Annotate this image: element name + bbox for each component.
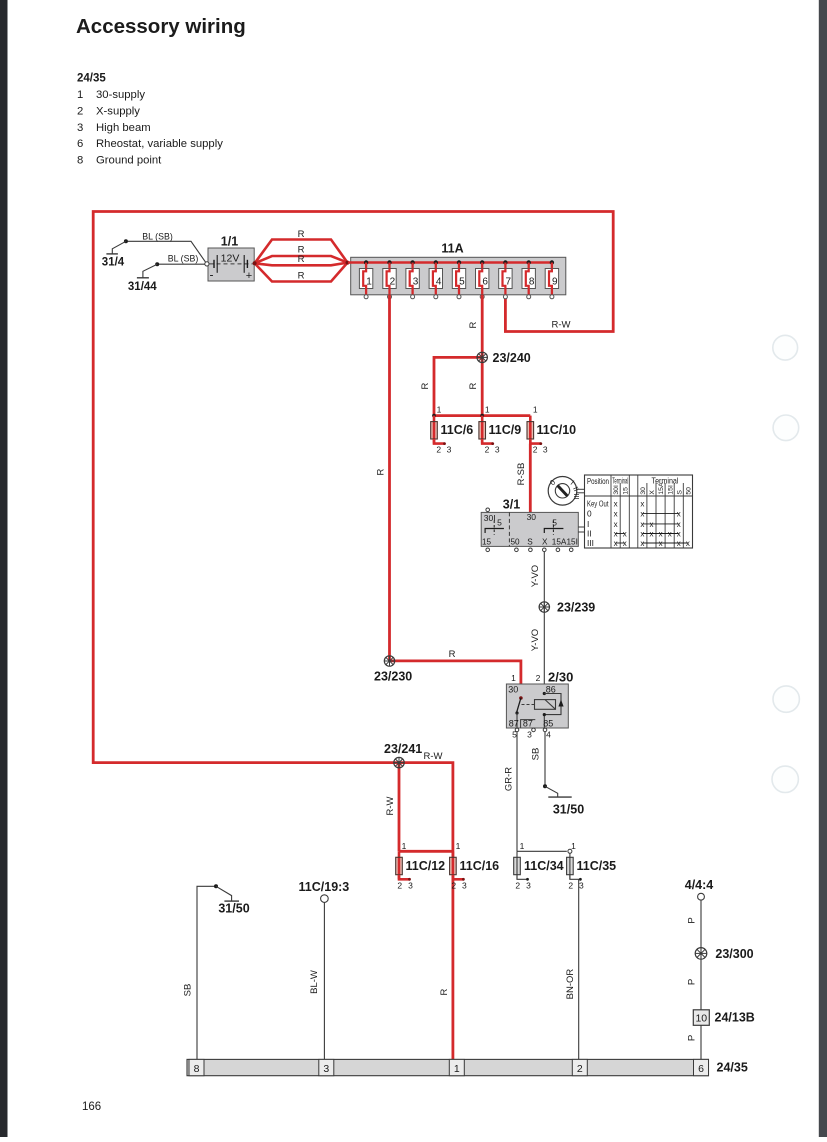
svg-text:7: 7 <box>506 276 512 287</box>
svg-text:24/35: 24/35 <box>717 1061 748 1075</box>
ignition key symbol <box>548 477 585 506</box>
connector 11C/34 <box>514 851 529 880</box>
svg-text:3: 3 <box>323 1063 329 1075</box>
svg-text:x: x <box>659 539 663 548</box>
right page edge strip <box>819 0 827 1137</box>
ground/feed rail 24/35 <box>187 1059 709 1075</box>
svg-text:24/35: 24/35 <box>77 73 106 85</box>
svg-text:6: 6 <box>482 276 488 287</box>
svg-text:Position: Position <box>587 476 609 486</box>
svg-text:9: 9 <box>552 276 558 287</box>
svg-text:30-supply: 30-supply <box>96 89 145 101</box>
svg-text:8: 8 <box>77 155 83 167</box>
rail terminal 3 <box>319 1059 334 1075</box>
svg-text:11C/9: 11C/9 <box>489 423 522 437</box>
rail terminal 2 <box>572 1059 587 1075</box>
svg-text:II: II <box>587 529 592 539</box>
svg-text:1: 1 <box>437 405 442 415</box>
rail terminal 8 <box>189 1059 204 1075</box>
svg-text:2: 2 <box>436 444 441 454</box>
fuse 3 <box>406 260 419 299</box>
svg-text:5: 5 <box>512 730 517 740</box>
svg-text:15I: 15I <box>567 538 578 547</box>
svg-text:SB: SB <box>182 984 193 997</box>
red bus inside fuse box <box>348 261 552 264</box>
svg-text:x: x <box>659 530 663 539</box>
svg-text:5: 5 <box>552 518 557 528</box>
svg-text:3: 3 <box>408 880 413 890</box>
svg-text:Ground point: Ground point <box>96 155 162 167</box>
svg-text:R: R <box>298 229 305 240</box>
svg-text:87: 87 <box>509 718 519 728</box>
svg-text:1: 1 <box>533 405 538 415</box>
svg-text:S: S <box>527 538 533 547</box>
wire: link 11C/6 11C/9 11C/10 pin1 <box>434 414 530 417</box>
ground 31/4 <box>112 241 126 253</box>
svg-text:SB: SB <box>531 748 542 761</box>
ground 31/44 <box>143 264 157 277</box>
svg-text:III: III <box>572 493 581 499</box>
svg-text:4: 4 <box>436 276 442 287</box>
wire: R-W branch from splice 23/241 down to 11C/12 <box>398 763 401 852</box>
splice 23/239 <box>539 602 549 612</box>
svg-text:3: 3 <box>579 880 584 890</box>
svg-text:11C/12: 11C/12 <box>406 859 446 873</box>
svg-text:8: 8 <box>194 1063 200 1075</box>
wire: four red R leads battery to fusebox <box>255 240 348 264</box>
connector 11C/6 <box>431 416 446 445</box>
splice 23/300 <box>695 948 707 960</box>
rail terminal 1 <box>449 1059 464 1075</box>
svg-text:15I: 15I <box>667 485 674 495</box>
svg-text:24/13B: 24/13B <box>715 1011 755 1025</box>
svg-text:30: 30 <box>640 487 647 495</box>
component 24/13B <box>693 1010 709 1026</box>
svg-text:30I: 30I <box>613 485 620 495</box>
svg-text:23/300: 23/300 <box>715 947 753 961</box>
svg-text:GR-R: GR-R <box>504 767 515 791</box>
svg-text:3: 3 <box>447 444 452 454</box>
svg-text:x: x <box>677 539 681 548</box>
wire: red link between 11C/12 and 11C/16 pin 1 <box>399 850 453 853</box>
wire: P feed down to terminal 6 <box>700 900 702 1059</box>
svg-text:R: R <box>439 988 450 995</box>
svg-text:2: 2 <box>577 1063 583 1075</box>
svg-text:R: R <box>449 649 456 660</box>
svg-text:III: III <box>587 538 594 548</box>
wire: BN-OR 11C/35 to terminal 2 <box>578 879 580 1059</box>
svg-text:R: R <box>298 254 305 265</box>
svg-text:15: 15 <box>482 538 492 547</box>
svg-text:P: P <box>687 917 698 923</box>
splice 23/230 <box>384 656 394 666</box>
fuse 8 <box>522 260 535 299</box>
svg-text:x: x <box>686 539 690 548</box>
fuse 7 <box>499 260 512 299</box>
svg-text:3: 3 <box>77 122 83 134</box>
svg-text:5: 5 <box>497 518 502 528</box>
svg-text:11C/19:3: 11C/19:3 <box>299 880 350 894</box>
fuse 6 <box>476 260 489 299</box>
svg-text:11C/16: 11C/16 <box>460 859 500 873</box>
svg-text:-: - <box>210 267 214 281</box>
svg-text:3: 3 <box>527 730 532 740</box>
svg-text:1: 1 <box>402 841 407 851</box>
svg-text:Rheostat, variable supply: Rheostat, variable supply <box>96 138 223 150</box>
svg-text:11C/34: 11C/34 <box>524 859 564 873</box>
svg-text:x: x <box>614 520 618 529</box>
svg-text:Y-VO: Y-VO <box>530 629 541 651</box>
svg-text:Y-VO: Y-VO <box>530 565 541 587</box>
svg-text:6: 6 <box>698 1063 704 1075</box>
svg-text:3: 3 <box>526 880 531 890</box>
svg-text:x: x <box>677 510 681 519</box>
svg-text:2: 2 <box>77 105 83 117</box>
svg-text:x: x <box>623 530 627 539</box>
svg-text:23/241: 23/241 <box>384 742 422 756</box>
fuse 1 <box>359 260 372 299</box>
svg-text:P: P <box>687 1035 698 1041</box>
wire: R from 23/230 to relay 30 <box>390 661 521 698</box>
svg-text:23/230: 23/230 <box>374 670 412 684</box>
relay 2/30 <box>506 673 568 740</box>
svg-text:3: 3 <box>495 444 500 454</box>
svg-text:2: 2 <box>568 880 573 890</box>
svg-text:+: + <box>246 270 252 282</box>
fuse box 11A <box>351 257 566 295</box>
svg-text:31/50: 31/50 <box>218 902 249 916</box>
svg-text:x: x <box>668 530 672 539</box>
svg-text:Key Out: Key Out <box>587 498 609 508</box>
svg-text:Terminal: Terminal <box>612 476 628 486</box>
battery 1/1 12V <box>205 235 254 283</box>
svg-text:R: R <box>298 271 305 282</box>
svg-text:5: 5 <box>459 276 465 287</box>
fuse 2 <box>383 260 396 299</box>
svg-text:1/1: 1/1 <box>221 235 238 249</box>
svg-text:R-W: R-W <box>424 751 443 762</box>
svg-text:x: x <box>640 539 644 548</box>
wire: Y-VO ignition X terminal to relay 86 <box>543 552 545 694</box>
wire from ground 31/4 to battery <box>126 241 207 264</box>
svg-text:8: 8 <box>529 276 535 287</box>
svg-text:3/1: 3/1 <box>503 498 520 512</box>
svg-text:2: 2 <box>397 880 402 890</box>
svg-text:3: 3 <box>462 880 467 890</box>
svg-text:R-W: R-W <box>385 796 396 815</box>
svg-text:30: 30 <box>527 512 537 522</box>
svg-text:15A: 15A <box>552 538 567 547</box>
svg-text:11A: 11A <box>441 242 463 256</box>
wire: SB relay 85 to ground 31/50 <box>544 732 546 787</box>
svg-text:30: 30 <box>508 685 518 695</box>
svg-text:I: I <box>587 519 589 529</box>
connector 11C/16 <box>450 851 465 880</box>
svg-text:1: 1 <box>456 841 461 851</box>
svg-text:x: x <box>650 530 654 539</box>
svg-text:2: 2 <box>451 880 456 890</box>
connector 11C/12 <box>396 851 411 880</box>
svg-text:x: x <box>640 499 644 508</box>
svg-text:15: 15 <box>622 487 629 495</box>
svg-text:12V: 12V <box>221 252 240 264</box>
svg-text:0: 0 <box>587 509 592 519</box>
ground 31/50 left with SB wire to terminal 8 <box>197 886 216 1059</box>
wire: gray link 11C/34 to 11C/35 <box>517 850 567 852</box>
ignition switch 3/1 <box>481 508 584 552</box>
svg-text:BL-W: BL-W <box>309 970 320 994</box>
splice 23/241 <box>394 757 404 767</box>
svg-text:X: X <box>649 490 656 495</box>
ground 31/50 right <box>545 786 558 797</box>
svg-text:x: x <box>614 499 618 508</box>
svg-text:Accessory wiring: Accessory wiring <box>76 15 246 38</box>
svg-text:2: 2 <box>515 880 520 890</box>
svg-text:x: x <box>614 539 618 548</box>
svg-text:BN-OR: BN-OR <box>565 969 576 1000</box>
svg-text:R: R <box>468 321 479 328</box>
svg-text:x: x <box>640 530 644 539</box>
svg-text:2: 2 <box>390 276 396 287</box>
svg-text:31/50: 31/50 <box>553 803 584 817</box>
svg-text:High beam: High beam <box>96 122 151 134</box>
svg-text:11C/6: 11C/6 <box>441 423 474 437</box>
svg-text:x: x <box>677 530 681 539</box>
svg-text:3: 3 <box>543 444 548 454</box>
svg-text:1: 1 <box>571 841 576 851</box>
wire from ground 31/44 to battery <box>157 263 205 265</box>
svg-text:R: R <box>420 382 431 389</box>
svg-text:166: 166 <box>82 1101 101 1113</box>
svg-text:P: P <box>687 979 698 985</box>
svg-text:BL (SB): BL (SB) <box>168 254 199 264</box>
svg-text:50: 50 <box>511 538 521 547</box>
svg-text:x: x <box>677 520 681 529</box>
wire: R-SB from 11C/10 to ignition switch 30 <box>529 444 532 514</box>
svg-text:11C/10: 11C/10 <box>537 423 577 437</box>
wire: fuse 2 supply down to splice 23/230 <box>388 295 391 661</box>
svg-text:50: 50 <box>686 487 693 495</box>
punch holes <box>773 335 798 360</box>
svg-text:X: X <box>542 538 548 547</box>
svg-text:15A: 15A <box>658 482 665 495</box>
fuse 4 <box>429 260 442 299</box>
svg-text:R-SB: R-SB <box>516 463 527 486</box>
svg-text:1: 1 <box>520 841 525 851</box>
fuse 5 <box>452 260 465 299</box>
svg-text:S: S <box>676 490 683 495</box>
rail terminal 6 <box>694 1059 709 1075</box>
svg-text:31/4: 31/4 <box>102 257 125 269</box>
svg-text:BL (SB): BL (SB) <box>142 231 173 241</box>
wire: GR-R relay 87 down to 11C/34 <box>516 732 518 852</box>
svg-text:R: R <box>375 468 386 475</box>
connector 11C/35 <box>567 851 582 880</box>
svg-text:1: 1 <box>511 673 516 683</box>
wire: fuse 6 down through 23/240 to connector row <box>481 295 484 416</box>
fuse 9 <box>545 260 558 299</box>
svg-text:1: 1 <box>485 405 490 415</box>
svg-text:2/30: 2/30 <box>548 670 573 685</box>
svg-text:2: 2 <box>536 673 541 683</box>
svg-text:4/4:4: 4/4:4 <box>685 878 714 892</box>
svg-text:23/240: 23/240 <box>493 351 531 365</box>
svg-text:10: 10 <box>695 1013 707 1025</box>
svg-text:31/44: 31/44 <box>128 281 157 293</box>
svg-text:1: 1 <box>77 89 83 101</box>
wire: 23/240 branch to 11C/6 <box>434 357 482 415</box>
svg-text:R: R <box>468 382 479 389</box>
connector 11C/10 <box>527 416 542 445</box>
svg-text:87: 87 <box>523 718 533 728</box>
svg-text:x: x <box>623 539 627 548</box>
svg-text:R-W: R-W <box>552 320 571 331</box>
svg-text:2: 2 <box>485 444 490 454</box>
svg-text:x: x <box>614 510 618 519</box>
svg-text:X-supply: X-supply <box>96 105 140 117</box>
left page edge strip <box>0 0 8 1137</box>
splice 23/240 <box>477 352 487 362</box>
svg-text:x: x <box>614 530 618 539</box>
svg-text:11C/35: 11C/35 <box>577 859 617 873</box>
svg-text:23/239: 23/239 <box>557 601 595 615</box>
svg-text:85: 85 <box>543 718 553 728</box>
ignition position table <box>585 475 693 548</box>
svg-text:1: 1 <box>366 276 372 287</box>
wire: main red feed loop (fuse 7 R-W around page border) <box>93 212 613 1061</box>
svg-text:3: 3 <box>413 276 419 287</box>
svg-text:6: 6 <box>77 138 83 150</box>
svg-text:x: x <box>640 520 644 529</box>
svg-text:1: 1 <box>454 1063 460 1075</box>
svg-text:2: 2 <box>533 444 538 454</box>
svg-text:x: x <box>650 520 654 529</box>
connector 11C/9 <box>479 416 494 445</box>
svg-text:4: 4 <box>546 730 551 740</box>
svg-text:x: x <box>640 510 644 519</box>
